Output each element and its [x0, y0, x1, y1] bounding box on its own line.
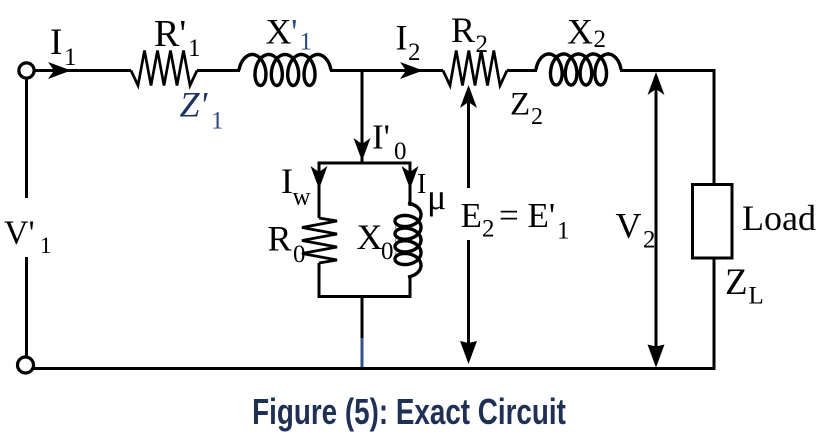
wire top rail: R2 to X2 — [507, 69, 537, 72]
current arrow Iw — [311, 166, 328, 189]
svg-text:Figure (5): Exact Circuit: Figure (5): Exact Circuit — [252, 392, 566, 432]
voltage arrow V2 (down head) — [648, 345, 665, 368]
svg-text:X: X — [357, 217, 383, 257]
current arrow I1 — [48, 62, 71, 79]
resistor R0 — [302, 218, 337, 263]
inductor X0 — [395, 203, 421, 277]
svg-text:I: I — [396, 18, 408, 58]
wire right side: corner down to load — [713, 69, 716, 185]
wire box left leg (lower) — [318, 263, 321, 298]
svg-text:2: 2 — [482, 216, 495, 243]
svg-text:E': E' — [528, 196, 556, 235]
svg-text:1: 1 — [40, 233, 52, 258]
svg-text:V': V' — [4, 215, 35, 252]
svg-text:2: 2 — [408, 39, 421, 66]
svg-text:1: 1 — [64, 44, 77, 71]
svg-text:Load: Load — [742, 198, 816, 238]
resistor R2 — [443, 51, 507, 86]
wire left side: upper segment — [25, 78, 28, 198]
svg-text:μ: μ — [427, 177, 446, 217]
voltage arrow E2 shaft lower — [467, 240, 470, 348]
current arrow I'0 — [354, 138, 371, 161]
wire box right leg (lower) — [409, 276, 412, 298]
svg-text:Z: Z — [725, 262, 748, 303]
wire shunt branch lower (black part) — [361, 297, 364, 339]
svg-text:2: 2 — [531, 104, 543, 130]
svg-text:1: 1 — [211, 108, 224, 135]
svg-text:X: X — [567, 12, 593, 52]
wire top rail: X'1 to R2 (through node) — [330, 69, 443, 72]
svg-text:2: 2 — [643, 227, 656, 254]
voltage arrow V2 shaft — [655, 87, 658, 352]
wire left side: lower segment — [25, 257, 28, 357]
terminal node (top-left input) — [19, 63, 34, 78]
svg-text:1: 1 — [300, 29, 313, 56]
resistor R'1 — [131, 51, 197, 86]
svg-text:1: 1 — [557, 218, 570, 245]
wire top rail: R'1 to X'1 — [197, 69, 240, 72]
terminal node (bottom-left input) — [18, 357, 34, 373]
svg-text:X: X — [266, 12, 292, 52]
svg-text:I: I — [417, 169, 426, 200]
current arrow Imu — [402, 166, 419, 189]
svg-text:V: V — [616, 206, 642, 246]
wire magnetising box bottom edge — [318, 295, 412, 298]
voltage arrow E2 shaft upper — [467, 100, 470, 188]
wire box left leg (upper) — [318, 163, 321, 218]
svg-text:=: = — [499, 196, 519, 235]
svg-text:Z: Z — [510, 87, 530, 123]
wire shunt branch lower (blue part) — [361, 338, 364, 367]
load component box — [693, 185, 733, 259]
svg-text:I: I — [50, 22, 62, 63]
svg-text:2: 2 — [594, 26, 607, 53]
svg-text:0: 0 — [381, 238, 394, 265]
svg-text:R: R — [268, 219, 292, 259]
wire magnetising box top edge — [318, 162, 412, 165]
caption: Figure (5): Exact Circuit — [252, 392, 566, 432]
svg-text:R: R — [451, 10, 475, 50]
svg-text:0: 0 — [293, 241, 306, 268]
svg-text:1: 1 — [188, 35, 201, 62]
wire box right leg (upper) — [409, 163, 412, 206]
wire bottom rail — [34, 367, 716, 370]
svg-text:w: w — [293, 184, 311, 211]
voltage arrow E2 (down head) — [460, 341, 477, 364]
svg-text:I': I' — [372, 118, 390, 157]
svg-text:': ' — [291, 12, 298, 52]
svg-text:L: L — [749, 283, 764, 310]
svg-text:R': R' — [154, 13, 186, 55]
inductor X'1 — [239, 55, 331, 86]
wire shunt branch: node to magnetising box — [361, 70, 364, 163]
svg-text:I: I — [281, 161, 293, 201]
svg-text:2: 2 — [476, 31, 489, 58]
inductor X2 — [536, 54, 621, 85]
current arrow I2 — [400, 62, 423, 79]
reference dashed line beside X0 — [395, 219, 397, 262]
wire top rail: X2 to top-right corner — [620, 69, 716, 72]
voltage arrow V2 (up head) — [648, 72, 665, 95]
svg-text:E: E — [461, 196, 482, 235]
voltage arrow E2 (up head) — [460, 85, 477, 108]
svg-text:0: 0 — [394, 138, 407, 165]
svg-text:Z': Z' — [180, 85, 209, 125]
wire top rail: terminal to R'1 — [34, 69, 131, 72]
wire right side: load to bottom rail — [713, 258, 716, 370]
